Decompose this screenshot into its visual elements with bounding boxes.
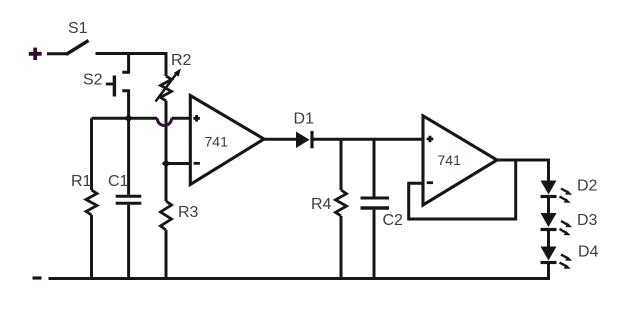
- label S2: [83, 72, 103, 89]
- LED D4: [541, 247, 573, 269]
- svg-text:R2: R2: [171, 52, 192, 69]
- svg-text:D2: D2: [577, 178, 598, 195]
- diode D1: [296, 131, 312, 148]
- svg-text:R4: R4: [311, 196, 332, 213]
- pushbutton S2: [106, 52, 129, 119]
- wire op1 inverting input: [166, 162, 191, 165]
- label C2: [383, 212, 404, 229]
- label R2: [171, 52, 192, 69]
- variable resistor R2: [156, 69, 182, 102]
- LED D2: [541, 181, 573, 203]
- wire op2 output to LED chain: [495, 160, 549, 181]
- resistor R1: [86, 118, 97, 280]
- label R3: [178, 204, 199, 221]
- wire D1 to op2 noninverting input: [312, 138, 424, 141]
- svg-text:D3: D3: [577, 212, 598, 229]
- svg-text:741: 741: [205, 134, 229, 150]
- op-amp U2 741: [423, 116, 497, 205]
- label S1: [68, 20, 88, 37]
- plus terminal: [29, 48, 42, 60]
- label R1: [71, 173, 92, 190]
- svg-text:C2: C2: [383, 212, 404, 229]
- resistor R4: [336, 139, 347, 280]
- wire op1 noninverting input right segment: [172, 117, 191, 120]
- svg-text:C1: C1: [108, 173, 129, 190]
- node junction inverting input: [162, 159, 170, 167]
- label 741 U1: [205, 134, 229, 150]
- label C1: [108, 173, 129, 190]
- wire top rail from S1 to R2 corner: [96, 54, 167, 77]
- LED D3: [541, 213, 573, 235]
- bottom rail wire: [49, 277, 551, 280]
- wire LED chain to bottom rail: [547, 263, 550, 279]
- op-amp U1 741: [190, 96, 264, 185]
- switch S1: [66, 41, 89, 55]
- svg-text:R1: R1: [71, 173, 92, 190]
- wire op1 noninverting input left segment: [92, 117, 158, 120]
- label D1: [294, 111, 315, 128]
- label D2: [577, 178, 598, 195]
- label D4: [578, 244, 599, 261]
- wire from plus terminal to S1: [47, 52, 67, 55]
- label D3: [577, 212, 598, 229]
- svg-text:S1: S1: [68, 20, 88, 37]
- capacitor C2: [361, 139, 390, 280]
- svg-text:D1: D1: [294, 111, 315, 128]
- wire R2 through crossing down to R3: [165, 101, 168, 201]
- resistor R3: [161, 201, 172, 280]
- wire D3 to D4: [547, 230, 550, 247]
- svg-text:D4: D4: [578, 244, 599, 261]
- capacitor C1: [116, 118, 142, 280]
- wire D2 to D3: [547, 197, 550, 214]
- minus terminal: [33, 276, 42, 279]
- node junction S2 C1: [124, 114, 132, 122]
- label 741 U2: [438, 152, 462, 168]
- label R4: [311, 196, 332, 213]
- svg-text:S2: S2: [83, 72, 103, 89]
- svg-text:741: 741: [438, 152, 462, 168]
- wire hop crossing: [157, 118, 171, 125]
- wire op1 output to D1: [262, 138, 297, 141]
- wire op2 feedback loop: [409, 160, 516, 219]
- svg-text:R3: R3: [178, 204, 199, 221]
